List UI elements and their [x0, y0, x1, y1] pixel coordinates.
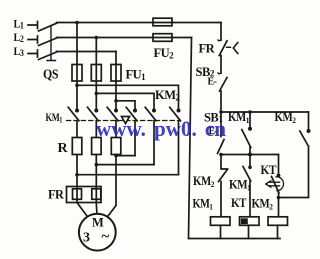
wire phase2 drop: [95, 38, 97, 110]
wire SB2 to SB1 node: [220, 91, 222, 112]
fuse FU2b: [153, 34, 172, 42]
wire bypass 1 to KM2 pole3: [77, 85, 179, 109]
svg-text:KM2: KM2: [252, 197, 273, 212]
wire L1 lead-in: [28, 22, 38, 29]
contact KM2 pole1: [133, 109, 137, 113]
resistor R1: [72, 138, 82, 155]
wire control bottom bus: [189, 238, 281, 240]
wire L1 to control: [172, 22, 221, 24]
switch QS pole 3 blade: [39, 52, 58, 60]
wire L2 lead-in: [28, 36, 38, 43]
switch QS pole 2 blade: [39, 38, 58, 46]
resistor R2: [92, 138, 102, 155]
wire L3 lead-in: [28, 50, 38, 57]
wire bypass 3 to KM2 pole1: [116, 101, 135, 109]
button SB1 start: [220, 112, 222, 137]
svg-text:FR: FR: [48, 187, 65, 202]
svg-text:FR: FR: [199, 42, 216, 56]
node junction pole1 return: [114, 154, 118, 158]
wire L3 bus: [57, 51, 117, 53]
svg-text:KT: KT: [261, 163, 278, 177]
node bypass tap 3: [114, 99, 118, 103]
wire phase1 drop: [76, 23, 78, 110]
svg-text:KT: KT: [231, 196, 247, 210]
wire KM2 pole1 return: [116, 155, 135, 157]
svg-text:FU1: FU1: [126, 67, 147, 82]
wire KM2 pole3 return: [77, 174, 179, 176]
contact KM2 pole2: [152, 109, 156, 113]
svg-text:L3: L3: [14, 46, 25, 58]
node latch junction: [219, 110, 223, 114]
node junction pole3 return: [75, 173, 79, 177]
contact KM1 pole2: [94, 109, 98, 113]
button SB2 stop: [218, 72, 221, 75]
node bypass tap 2: [95, 92, 99, 96]
fuse FU1c: [111, 65, 121, 82]
linkage triangle mark: [122, 117, 130, 124]
contact KM1 aux latch: [249, 112, 251, 127]
wire L2 bus: [57, 37, 173, 39]
svg-text:KM2: KM2: [155, 88, 181, 103]
wire to motor right: [107, 206, 116, 218]
node KM1 aux bus junction: [248, 110, 252, 114]
contact KM2 aux latch: [308, 112, 310, 130]
svg-text:3: 3: [83, 231, 90, 246]
svg-text:QS: QS: [43, 67, 58, 82]
node KM2 latch junction: [277, 196, 281, 200]
wire mid node line: [221, 154, 279, 156]
switch QS pole 1 blade: [39, 23, 58, 31]
contact KT delayed close: [278, 155, 280, 176]
wire control right drop: [220, 23, 222, 41]
fuse FU1a: [72, 65, 82, 82]
coil KM2: [268, 217, 288, 226]
relay FR element2: [92, 189, 101, 200]
wire phase1 below R: [76, 155, 78, 203]
wire control left vertical: [189, 38, 192, 239]
wire phase3 below R: [115, 155, 117, 206]
svg-text:~: ~: [102, 229, 110, 245]
relay FR box: [67, 187, 102, 203]
contact KM2 pole3: [177, 109, 181, 113]
resistor R3: [111, 138, 121, 155]
wire to motor mid: [95, 203, 98, 215]
wire phase3 drop: [115, 52, 117, 110]
wire FR to SB2: [220, 56, 222, 74]
contact KM2 interlock NC: [221, 155, 228, 170]
contact KM1 pole3: [114, 109, 118, 113]
node junction pole2 return: [95, 163, 99, 167]
node SB1 bottom junction: [219, 153, 223, 157]
coil KT: [240, 217, 260, 226]
wire coil KM2 to bus: [277, 225, 279, 238]
relay FR element1: [73, 189, 82, 200]
svg-text:KM1: KM1: [193, 197, 213, 212]
fuse FU1b: [91, 65, 101, 82]
node junction L1 drop: [75, 21, 79, 25]
wire to motor left: [77, 203, 88, 218]
contact KM1 pole1: [75, 109, 79, 113]
wire L2 to control: [172, 37, 192, 39]
svg-text:M: M: [92, 216, 104, 230]
fuse FU2a: [153, 18, 172, 26]
svg-text:FU2: FU2: [154, 46, 175, 61]
wire KM2 pole2 return: [96, 164, 154, 166]
wire L1 bus: [57, 22, 173, 24]
svg-text:R: R: [58, 141, 69, 156]
node latch bottom junction: [248, 153, 252, 157]
wire phase2 below R: [95, 155, 97, 203]
svg-text:L1: L1: [14, 19, 25, 31]
svg-text:L2: L2: [14, 32, 25, 44]
switch QS linkage bar: [47, 26, 56, 61]
wire coil KM1 to bus: [220, 225, 222, 238]
svg-text:www. pw0. cn: www. pw0. cn: [96, 116, 226, 141]
svg-text:KM1: KM1: [229, 178, 251, 193]
svg-text:KM2: KM2: [193, 174, 214, 189]
relay contact FR NC: [218, 39, 221, 42]
svg-text:KM1: KM1: [46, 110, 63, 125]
motor M1: [79, 214, 116, 251]
node junction L2 drop: [95, 36, 99, 40]
node bypass tap 1: [75, 84, 79, 88]
wire coil KT to bus: [248, 225, 250, 238]
svg-text:SB2: SB2: [196, 65, 215, 80]
linkage dashed line: [67, 120, 181, 122]
contact KM1 aux2: [249, 155, 251, 167]
wire bypass 2 to KM2 pole2: [96, 93, 154, 109]
coil KM1: [211, 217, 231, 226]
wire control top bus: [221, 111, 309, 113]
